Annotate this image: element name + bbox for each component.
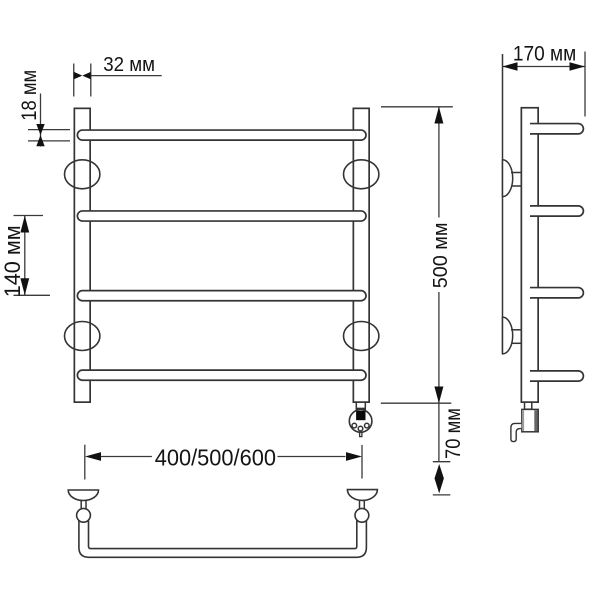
bottom view right ball (355, 508, 369, 522)
side element box (522, 409, 538, 431)
wall mount ellipse upper-left (65, 160, 100, 189)
arrow 140mm up (20, 216, 29, 233)
heating element body circle (front) (349, 410, 372, 433)
heating element black block (front) (356, 411, 365, 420)
dim 500mm line segments (438, 107, 440, 218)
heating element stub (front) (360, 432, 362, 436)
dim 170mm line (503, 66, 586, 68)
wall mount ellipse lower-left (65, 322, 100, 351)
svg-text:70 мм: 70 мм (441, 408, 465, 459)
arrow 18mm up (36, 135, 44, 146)
side view post (521, 108, 538, 402)
side element neck (525, 402, 532, 409)
dim 32mm line (91, 75, 162, 77)
side cable hook (511, 423, 521, 441)
svg-text:140 мм: 140 мм (0, 225, 25, 297)
dim 18mm extension lines (28, 129, 70, 131)
svg-text:400/500/600: 400/500/600 (155, 444, 276, 470)
dim 18mm line (40, 94, 42, 147)
arrow 32mm left (74, 72, 82, 79)
dim 400/500/600 line segments (101, 456, 152, 458)
arrow 170mm right (570, 62, 586, 71)
side element box left shading (522, 410, 524, 431)
side view lower neck lines (511, 329, 522, 331)
svg-text:18 мм: 18 мм (17, 70, 41, 121)
bottom view tube (79, 521, 367, 557)
arrow 140mm down (20, 278, 29, 295)
pin right (365, 423, 370, 428)
arrow 170mm left (503, 62, 518, 71)
bar 1 (77, 130, 366, 140)
dim 140mm line (24, 216, 26, 296)
arrow 70mm diamond (435, 464, 444, 493)
wall mount ellipse lower-right (344, 322, 379, 351)
side element box right shading (534, 410, 537, 431)
heating element dark collar (front) (356, 408, 366, 411)
svg-text:32 мм: 32 мм (103, 53, 155, 76)
arrow 500mm down (434, 387, 443, 404)
side stub 4 (530, 371, 583, 381)
bottom view right neck lines (359, 500, 361, 511)
wall mount ellipse upper-right (344, 160, 379, 189)
side stub 3 (530, 288, 583, 298)
pin left (352, 423, 357, 428)
front view left post (74, 108, 90, 402)
bottom view left dome (68, 490, 98, 501)
side view lower dome (503, 317, 513, 354)
bottom view right dome (347, 490, 377, 501)
arrow 400 left (85, 452, 101, 461)
side view upper neck lines (511, 172, 522, 174)
side view wall line (502, 54, 504, 354)
dim 500mm top extension line (381, 106, 453, 108)
side stub 2 (530, 206, 583, 216)
side view upper dome (503, 160, 513, 197)
dim 70mm tick 2 (433, 494, 451, 496)
arrow 400 right (346, 452, 362, 461)
arrow 32mm right (82, 72, 90, 79)
front view right post (353, 108, 369, 402)
arrow 18mm down (36, 124, 44, 135)
svg-text:500 мм: 500 мм (430, 222, 452, 288)
dim 70mm tick 1 (433, 461, 451, 463)
dim 500mm bottom extension line (381, 402, 452, 404)
bar 2 (77, 211, 366, 221)
dim 32mm extension lines (73, 64, 75, 97)
bar 3 (77, 291, 366, 301)
dim 170mm right extension line (584, 52, 586, 117)
pin bottom (358, 426, 363, 431)
side stub 1 (530, 124, 583, 134)
dim 70mm line (438, 403, 440, 462)
svg-text:170 мм: 170 мм (513, 42, 576, 66)
bottom view left ball (77, 508, 91, 522)
bottom view left neck lines (80, 500, 82, 511)
dim 400/500/600 extension lines (84, 445, 86, 480)
bar 4 (77, 370, 366, 380)
dim 140mm extension lines (14, 215, 44, 217)
arrow 500mm up (434, 107, 443, 124)
heating element neck (front) (356, 402, 365, 408)
